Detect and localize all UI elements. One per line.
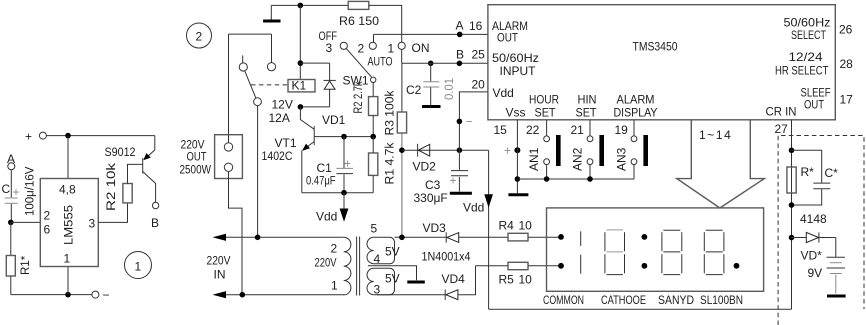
svg-text:HOUR: HOUR (529, 93, 559, 107)
resistor R1 4.7k (369, 153, 378, 175)
ground center tap (407, 281, 425, 284)
svg-text:5V: 5V (385, 245, 400, 259)
ground battery (835, 275, 837, 294)
node junction C1 top (341, 134, 347, 140)
svg-text:220V: 220V (207, 254, 231, 268)
wire R2 top to base (128, 164, 143, 183)
node display in bottom (558, 263, 564, 269)
wire R3 column (401, 63, 403, 112)
svg-text:IN: IN (214, 268, 226, 282)
ground Vss (508, 193, 528, 196)
resistor R3 100k (397, 112, 406, 133)
svg-text:LM555: LM555 (62, 205, 76, 245)
wire capacitor to node (10, 204, 12, 223)
terminal - (minus) (92, 291, 99, 298)
relay contact left (239, 63, 247, 71)
wire R6 to switch contact 1 (369, 5, 402, 42)
node junction K1 bottom (298, 104, 304, 110)
svg-text:19: 19 (615, 123, 629, 137)
svg-text:C*: C* (825, 166, 839, 180)
svg-text:330μF: 330μF (414, 191, 448, 205)
node junction R* bottom (789, 202, 795, 208)
svg-text:AN2: AN2 (570, 147, 584, 171)
wire VD4 to R5 (476, 265, 509, 267)
svg-text:2500W: 2500W (180, 163, 212, 177)
node junction pin2,6 (8, 220, 14, 226)
svg-text:100μ/16V: 100μ/16V (25, 166, 37, 216)
chassis ground top (270, 5, 272, 19)
svg-text:Vdd: Vdd (493, 86, 514, 100)
svg-text:Vdd: Vdd (463, 201, 484, 215)
svg-text:R5: R5 (499, 273, 515, 287)
svg-text:20: 20 (472, 78, 486, 92)
capacitor C2 0.01 (428, 61, 434, 67)
battery 9V (835, 238, 837, 257)
svg-text:OUT: OUT (497, 31, 519, 45)
resistor R* (787, 167, 796, 193)
wire relay top link (229, 33, 272, 35)
node junction VD2 (399, 147, 405, 153)
svg-text:28: 28 (840, 57, 854, 71)
wire pivot to R2' (372, 83, 374, 97)
svg-text:OUT: OUT (804, 98, 825, 112)
svg-text:5V: 5V (385, 272, 400, 286)
wire R1 to bottom rail (10, 276, 12, 295)
svg-text:SET: SET (535, 106, 557, 120)
display box (547, 208, 764, 291)
wire emitter rail (302, 192, 373, 194)
pushbutton AN3 (631, 136, 637, 142)
svg-text:TMS3450: TMS3450 (633, 40, 678, 54)
svg-text:2: 2 (331, 242, 338, 256)
wire top rail circuit1 (46, 135, 154, 137)
svg-text:INPUT: INPUT (500, 64, 537, 78)
svg-text:16: 16 (469, 19, 483, 33)
svg-text:1: 1 (64, 252, 71, 266)
power Vdd arrow right (488, 150, 490, 309)
svg-text:HR SELECT: HR SELECT (775, 64, 829, 78)
wire left contact feed down to OUT box (228, 34, 230, 143)
digit 8 second (662, 230, 682, 274)
node A (457, 32, 463, 38)
svg-text:R1 4.7k: R1 4.7k (385, 142, 397, 184)
wire node to LM555 pin2,6 (11, 221, 41, 223)
wire pin4 tap (368, 266, 417, 280)
transformer primary winding 220V (344, 237, 351, 295)
wire pin5 to VD3 (395, 236, 447, 238)
op-amp U1 LM555 (40, 179, 98, 267)
node junction K1 feed (298, 3, 304, 9)
digit 1 (580, 231, 582, 246)
wire pin16 A rail (374, 33, 488, 35)
switch SW1 pivot (371, 77, 376, 82)
IC U2 TMS3450 box (488, 5, 835, 120)
svg-text:R4: R4 (499, 219, 515, 233)
svg-text:B: B (456, 48, 464, 62)
svg-text:C: C (2, 182, 11, 196)
svg-text:SANYD: SANYD (658, 293, 694, 307)
svg-text:SET: SET (576, 106, 598, 120)
svg-text:3: 3 (89, 217, 96, 231)
relay K1 coil feed wire (299, 5, 301, 79)
svg-text:R6 150: R6 150 (339, 14, 379, 28)
relay contact stub (242, 55, 244, 62)
svg-text:+: + (450, 174, 457, 188)
relay arm (245, 71, 256, 99)
svg-text:220V: 220V (315, 256, 337, 270)
resistor R2 10k (123, 184, 132, 203)
resistor R1* (6, 256, 15, 277)
wire pin20 elbow (459, 92, 488, 150)
dashed actuator link K1 (251, 84, 288, 86)
node junction R* top (789, 148, 795, 154)
svg-text:12/24: 12/24 (789, 50, 823, 64)
wire buttons common (517, 178, 634, 180)
node junction Vdd rail (341, 190, 347, 196)
svg-text:4: 4 (374, 252, 381, 266)
ground C2 (422, 105, 441, 108)
svg-text:1: 1 (331, 279, 338, 293)
svg-text:9V: 9V (808, 266, 823, 280)
digit 8 first (605, 230, 625, 275)
svg-text:R*: R* (801, 165, 815, 179)
svg-text:1N4001x4: 1N4001x4 (422, 250, 471, 264)
svg-text:R1*: R1* (20, 255, 32, 275)
svg-text:12A: 12A (269, 111, 290, 125)
node junction R1R2 base (370, 134, 376, 140)
transformer secondary winding 5-4 (367, 237, 374, 263)
svg-text:2: 2 (358, 42, 365, 56)
node display in top (558, 234, 564, 240)
svg-text:10: 10 (519, 273, 533, 287)
svg-text:Vss: Vss (506, 106, 526, 120)
svg-text:+: + (25, 130, 32, 144)
transformer secondary winding 4-3 (367, 268, 374, 294)
svg-text:−: − (103, 288, 110, 302)
svg-text:COMMON: COMMON (543, 293, 584, 307)
svg-text:26: 26 (839, 23, 853, 37)
capacitor C3 330uF (458, 150, 460, 170)
svg-text:VD4: VD4 (442, 272, 466, 286)
node junction pin1 bottom (65, 292, 71, 298)
svg-text:2: 2 (196, 30, 203, 44)
svg-text:VD3: VD3 (423, 221, 447, 235)
svg-text:DISPLAY: DISPLAY (614, 106, 658, 120)
wire pivot down to mains (257, 106, 259, 238)
transformer core (356, 237, 358, 296)
circled number 2 (187, 23, 212, 48)
terminal B (152, 202, 158, 208)
svg-text:4,8: 4,8 (59, 183, 76, 197)
node minus tap (457, 119, 463, 125)
svg-text:SELECT: SELECT (791, 28, 826, 42)
socket 220V OUT box (215, 135, 243, 179)
svg-text:S9012: S9012 (105, 145, 136, 159)
node junction diode 4148 (789, 235, 795, 241)
wire right contact feed (271, 34, 273, 63)
svg-text:+: + (504, 144, 511, 158)
svg-text:12V: 12V (272, 98, 293, 112)
svg-text:R3 100k: R3 100k (385, 90, 397, 135)
svg-text:ALARM: ALARM (617, 93, 655, 107)
dashed enclosure (778, 136, 864, 325)
svg-text:3: 3 (326, 41, 333, 55)
node B (457, 61, 463, 67)
wire pin4,8 (67, 136, 69, 179)
wire bottom CR rail (489, 308, 792, 310)
wire node to R1 (10, 222, 12, 255)
relay moving pivot (254, 98, 262, 106)
diode VD1 (329, 63, 331, 80)
svg-text:AN3: AN3 (614, 147, 628, 171)
wire switch1 down to pin25 rail (401, 49, 403, 63)
node junction pin5 (399, 235, 405, 241)
svg-text:0.47μF: 0.47μF (306, 174, 336, 188)
digit 8 third (704, 230, 724, 274)
pushbutton AN2 (587, 136, 593, 142)
colon dots (642, 234, 648, 240)
capacitor C1 0.47uF (343, 137, 345, 168)
wire VD1 top (300, 62, 329, 64)
svg-text:17: 17 (840, 93, 854, 107)
wire VT1 emitter down (301, 151, 303, 193)
node junction OUT jog (240, 292, 246, 298)
wire VD1 bottom (300, 106, 329, 108)
wire pin25 B rail (402, 62, 488, 64)
wire R2' to base node (372, 116, 374, 137)
svg-text:OUT: OUT (187, 150, 208, 164)
svg-text:R2 2.7k: R2 2.7k (353, 81, 365, 113)
svg-text:HIN: HIN (578, 93, 597, 107)
svg-text:K1: K1 (292, 79, 307, 93)
svg-text:AUTO: AUTO (368, 55, 393, 69)
svg-text:CR IN: CR IN (766, 105, 797, 119)
svg-text:10: 10 (519, 219, 533, 233)
resistor R2 2.7k (369, 97, 378, 116)
svg-text:1: 1 (135, 260, 142, 274)
circled number 1 (125, 252, 152, 279)
wire R3 to VD2 node and pin5 node (401, 133, 403, 237)
wire top rail to R6 (271, 4, 348, 6)
svg-text:CATHOOE: CATHOOE (601, 293, 646, 307)
wire pin3 (98, 203, 127, 223)
svg-text:R2 10k: R2 10k (106, 163, 118, 211)
svg-text:1~14: 1~14 (699, 128, 732, 142)
relay K1 coil box (288, 80, 315, 92)
svg-text:ON: ON (412, 41, 430, 55)
svg-text:1: 1 (388, 42, 395, 56)
node junction relay column (255, 235, 261, 241)
svg-text:VD1: VD1 (322, 113, 346, 127)
diode VD2 (402, 149, 489, 151)
svg-text:6: 6 (44, 223, 51, 237)
decimal dot (734, 263, 740, 269)
resistor R6 150 (348, 1, 369, 9)
svg-text:2: 2 (44, 209, 51, 223)
svg-text:4148: 4148 (800, 212, 827, 226)
svg-text:25: 25 (472, 48, 486, 62)
wire pin1 (67, 267, 69, 295)
svg-text:22: 22 (526, 123, 540, 137)
wire VT1 base rail (314, 136, 373, 138)
svg-text:−: − (466, 115, 473, 129)
switch SW1 arm (346, 49, 371, 77)
node junction C3 top (457, 147, 463, 153)
svg-text:15: 15 (494, 123, 508, 137)
node Vss plus (515, 176, 521, 182)
svg-text:27: 27 (775, 122, 789, 136)
svg-text:AN1: AN1 (527, 147, 541, 171)
power Vdd arrow left (343, 193, 345, 209)
svg-text:VT1: VT1 (275, 136, 297, 150)
terminal 220V IN top arrow (218, 236, 344, 238)
svg-text:5: 5 (371, 222, 378, 236)
svg-text:A: A (456, 19, 464, 33)
wire OUT box bottom jog (229, 172, 243, 295)
svg-text:VD2: VD2 (413, 160, 437, 174)
svg-text:21: 21 (571, 123, 585, 137)
capacitor C* (792, 150, 822, 183)
svg-text:50/60Hz: 50/60Hz (492, 51, 539, 65)
ground C3 (450, 192, 472, 195)
svg-text:Vdd: Vdd (316, 210, 337, 224)
svg-text:VD*: VD* (801, 249, 823, 263)
node junction VD1 top (298, 60, 304, 66)
wire A to capacitor C (10, 170, 12, 198)
svg-text:C3: C3 (425, 178, 441, 192)
svg-text:B: B (151, 216, 159, 230)
svg-text:+: + (13, 185, 20, 199)
svg-text:SL100BN: SL100BN (700, 293, 743, 307)
svg-text:C2: C2 (406, 83, 422, 97)
wire bottom rail circuit1 (11, 294, 92, 296)
node junction pin4,8 rail (65, 133, 71, 139)
pushbutton AN1 (544, 136, 550, 142)
svg-text:0.01: 0.01 (444, 78, 456, 100)
relay contact right (267, 63, 275, 71)
svg-text:1402C: 1402C (262, 149, 293, 163)
terminal 220V IN bottom arrow (218, 294, 344, 296)
